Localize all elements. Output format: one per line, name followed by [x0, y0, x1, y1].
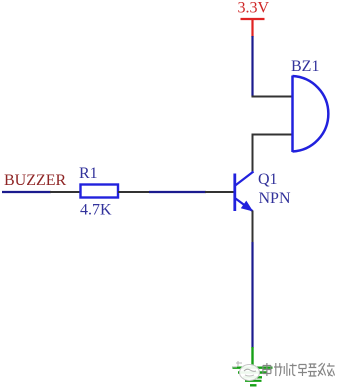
- transistor Q1 symbol: [235, 172, 254, 212]
- ground bar 2: [238, 371, 267, 373]
- resistor R1 pin 1: [50, 191, 81, 193]
- transistor Q1 base pin: [205, 191, 234, 193]
- svg-text:NPN: NPN: [259, 190, 291, 207]
- svg-text:Q1: Q1: [258, 171, 278, 188]
- watermark text (CJK glyph strokes): [263, 363, 335, 376]
- ground bar 5: [250, 384, 257, 386]
- resistor R1 body: [81, 185, 119, 198]
- wire left to resistor: [2, 191, 51, 193]
- buzzer BZ1 pin 1: [252, 96, 293, 98]
- wire resistor to transistor base pin: [149, 191, 206, 193]
- power symbol 3.3V bar: [241, 18, 265, 20]
- wire power to buzzer pin: [251, 36, 253, 97]
- ground bar 1: [233, 367, 273, 369]
- ground bar 3: [243, 376, 262, 378]
- svg-text:4.7K: 4.7K: [80, 202, 112, 219]
- ground bar 4: [245, 380, 262, 382]
- svg-text:3.3V: 3.3V: [238, 0, 270, 17]
- buzzer BZ1 symbol: [293, 76, 329, 153]
- svg-text:BUZZER: BUZZER: [4, 172, 67, 189]
- buzzer BZ1 pin 2: [253, 135, 293, 173]
- svg-text:BZ1: BZ1: [291, 58, 319, 75]
- transistor emitter pin: [252, 211, 254, 244]
- ground stem: [251, 347, 253, 367]
- power symbol stem: [251, 18, 253, 37]
- watermark logo circle: [233, 361, 260, 381]
- wire emitter to ground: [251, 242, 253, 348]
- resistor R1 pin 2: [118, 191, 150, 193]
- svg-text:R1: R1: [79, 165, 98, 182]
